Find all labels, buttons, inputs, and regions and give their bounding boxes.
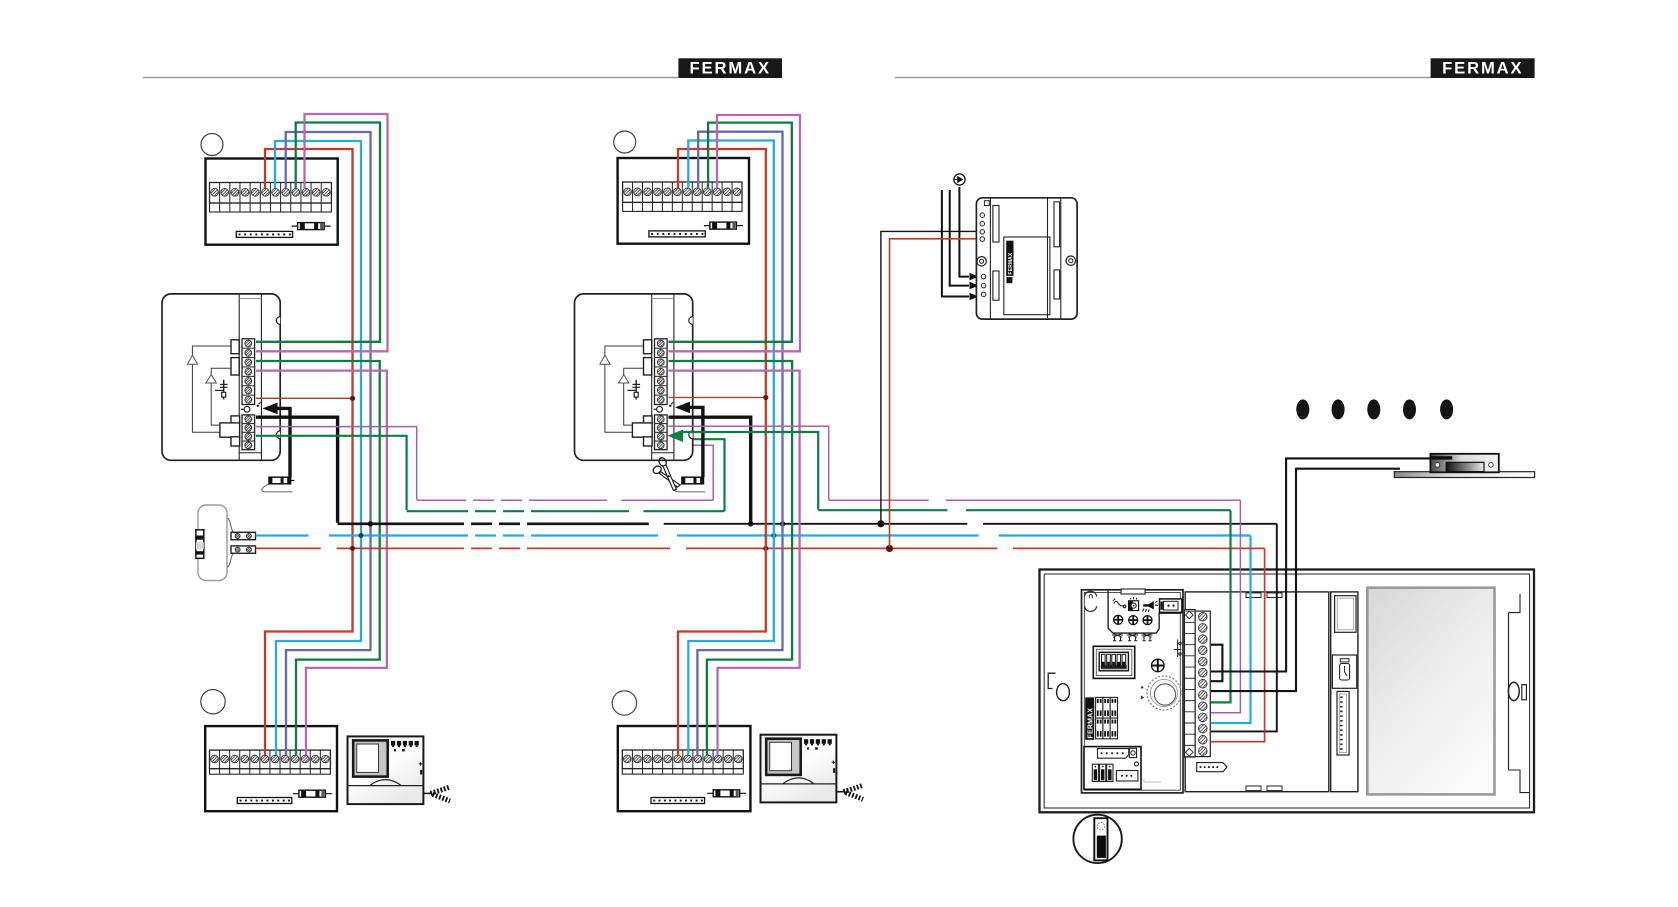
arrow (black) into monitor M1 adjust point — [263, 403, 291, 478]
wire purple monitor M2 terminal L2 to purple bus (right) — [669, 426, 829, 499]
green bus (right section, M2 to panel) — [818, 510, 1230, 702]
monitor M2 connector tabs — [632, 340, 652, 446]
wire magenta riser D2 to monitor M2 terminal 2 — [669, 115, 801, 351]
terminator resistor element — [196, 530, 204, 559]
distributor box D4 (bottom middle) fuse — [707, 790, 746, 797]
end-of-line loop unit — [198, 505, 234, 581]
continuation dots (more monitors) — [1296, 399, 1453, 419]
button module (middle of panel) — [1331, 592, 1358, 792]
wire thin red monitor M1 terminal 7 tap — [256, 396, 355, 401]
distributor box D4 (bottom middle) pin connector — [651, 798, 705, 804]
black jumper terminals 4-7 on strip — [1211, 645, 1222, 682]
wire magenta riser D1 to monitor M1 terminal 2 — [256, 114, 388, 351]
purple bus (right section, M2 to panel) — [829, 500, 1241, 713]
ferrite / line terminator at monitor M1 — [262, 477, 295, 492]
wire green riser D1 to monitor M1 terminal 1 — [256, 123, 380, 342]
wire cyan riser (middle column) — [688, 141, 774, 756]
wire green monitor M1 terminal L3 to green bus — [256, 436, 407, 510]
monitor M2 upper terminal strip (7) — [655, 339, 668, 405]
junction dots on black bus — [368, 520, 885, 527]
wire green monitor M2 terminal 3 to distributor D4 — [669, 361, 793, 755]
wire PSU red output to red bus — [890, 239, 978, 548]
monitor M1 lower terminal strip (4) — [242, 415, 255, 450]
svg-text:FERMAX: FERMAX — [1088, 708, 1095, 739]
header rule left — [143, 77, 678, 79]
svg-text:FERMAX: FERMAX — [1008, 252, 1014, 275]
amplifier handset hook icon — [1113, 598, 1126, 607]
panel inner window frame — [1185, 592, 1329, 792]
amplifier terminal strip — [1185, 610, 1211, 758]
scissors (cut mark) at monitor M2 — [652, 456, 680, 490]
junction dots on cyan bus — [359, 533, 777, 538]
svg-text:FERMAX: FERMAX — [1442, 58, 1523, 77]
distributor box D4 (bottom middle) body — [618, 726, 751, 811]
amplifier bottom connector box — [1084, 747, 1161, 790]
wire purple monitor M1 terminal L2 to purple bus — [256, 427, 417, 500]
monitor M1 upper terminal strip (7) — [242, 339, 255, 405]
distributor box D2 (top middle) fuse — [704, 222, 743, 229]
wire magenta monitor M1 terminal 4 to distributor D3 — [256, 371, 387, 755]
distributor box D3 (bottom-left) pin connector — [237, 798, 291, 804]
wire slate riser (middle column) — [697, 132, 782, 755]
wire thin red monitor M2 terminal 7 tap — [669, 395, 769, 400]
outdoor panel outer frame — [1040, 570, 1535, 813]
loop terminal block lower — [231, 546, 256, 553]
distributor box D1 (top-left) fuse — [292, 223, 331, 230]
jumper block array — [1096, 697, 1118, 738]
wire thick black monitor M1 terminal L1 to black bus — [256, 417, 338, 523]
ferrite / line terminator at monitor M2 — [675, 477, 706, 492]
junction dots on red bus — [350, 545, 893, 552]
monitor M2 body — [575, 294, 693, 460]
distributor box D2 (top middle) pin connector — [649, 231, 705, 237]
trim tool mark — [1174, 640, 1182, 658]
mains input symbol — [954, 174, 965, 185]
arrow (black) into monitor M2 adjust point — [675, 402, 703, 478]
wire green monitor M1 terminal 3 to distributor D3 — [256, 361, 380, 755]
distributor box D4 (bottom middle) terminal strip — [622, 750, 743, 774]
electric door strike — [1394, 454, 1534, 478]
wire slate riser (left column) — [286, 132, 371, 755]
amplifier LED indicator — [1129, 597, 1139, 610]
distributor box D1 (top-left) terminal strip — [210, 183, 332, 213]
amplifier speaker screws — [1114, 615, 1152, 624]
monitor M1 connector tabs — [220, 340, 240, 446]
distributor box D3 (bottom-left) body — [205, 726, 337, 811]
wire cyan riser (left column) — [275, 141, 361, 755]
green arrow into monitor M2 terminal L3 with twin feed — [668, 430, 819, 510]
amplifier top-left clips — [1084, 591, 1096, 611]
monitor M2 lower terminal strip (4) — [655, 415, 668, 450]
monitor M1 body — [162, 294, 280, 460]
red bus — [256, 548, 1265, 741]
distributor box D2 (top middle) body — [618, 158, 749, 244]
green bus (left section, L-monitor to M2 arrow) — [407, 439, 725, 511]
key switch detail circle — [1073, 815, 1121, 863]
wire thick black monitor M2 terminal L1 to black bus — [669, 417, 751, 523]
wire red riser (middle column) — [678, 149, 766, 755]
note circle B (top middle) — [614, 131, 636, 153]
wall phone T2 (bottom middle) — [761, 735, 864, 803]
FERMAX logo (top centre) — [678, 58, 782, 78]
adjust cross screw — [1152, 659, 1165, 672]
amplifier speaker housing outline — [1108, 591, 1181, 634]
distributor box D2 (top middle) terminal strip — [623, 182, 742, 211]
note circle A (top-left) — [201, 134, 223, 156]
mains wires into PSU — [942, 187, 979, 300]
cyan bus — [256, 536, 1251, 724]
amplifier microphone icon — [1143, 601, 1159, 612]
distributor box D1 (top-left) pin connector — [236, 231, 292, 237]
speaker grille — [1367, 588, 1494, 795]
loop terminal block upper — [231, 532, 256, 539]
wire lock release A — [1211, 458, 1436, 671]
distributor box D3 (bottom-left) fuse — [293, 790, 332, 797]
header rule right — [895, 77, 1431, 79]
FERMAX label on amplifier — [1085, 697, 1094, 739]
amplifier top connector — [1160, 599, 1182, 613]
wire red riser (left column) — [265, 149, 353, 755]
power supply unit PSU — [976, 198, 1077, 319]
note circle D (bottom middle) — [612, 691, 636, 715]
wire green riser D2 to monitor M2 terminal 1 — [669, 123, 792, 342]
distributor box D3 (bottom-left) terminal strip — [210, 750, 331, 774]
DIP switch block — [1093, 646, 1134, 678]
FERMAX logo (top right) — [1431, 58, 1535, 78]
black data bus — [338, 524, 1277, 732]
distributor box D1 (top-left) body — [206, 159, 338, 245]
wall phone T1 (bottom-left) — [348, 736, 451, 804]
monitor M2 internal circuit symbols — [600, 346, 673, 432]
volume potentiometer — [1141, 676, 1181, 710]
monitor M1 internal circuit symbols — [187, 346, 260, 432]
wire lock release B — [1211, 469, 1400, 691]
panel right mounting slot — [1508, 594, 1529, 793]
purple bus (left section, L-monitor to M2 terminal L4) — [417, 445, 714, 500]
strip bottom 5-pin connector — [1197, 763, 1227, 772]
note circle C (bottom-left) — [201, 690, 225, 714]
svg-text:FERMAX: FERMAX — [689, 58, 770, 77]
wire magenta monitor M2 terminal 4 to distributor D4 — [669, 371, 800, 755]
wire PSU black output to black bus — [881, 231, 977, 522]
panel left mounting slot — [1048, 673, 1069, 701]
amplifier bracket symbols — [1112, 633, 1153, 641]
amplifier module body — [1082, 589, 1184, 793]
